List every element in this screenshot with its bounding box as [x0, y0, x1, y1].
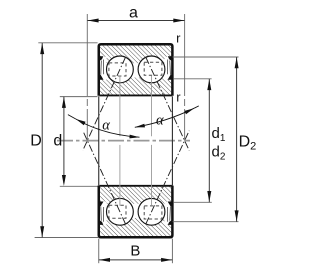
svg-text:r: r [176, 89, 181, 104]
svg-text:D: D [30, 132, 42, 149]
svg-text:α: α [156, 112, 164, 128]
svg-text:α: α [102, 118, 110, 134]
svg-text:d: d [53, 132, 62, 149]
svg-text:r: r [176, 30, 181, 45]
svg-text:B: B [130, 243, 140, 260]
svg-text:a: a [129, 5, 138, 22]
